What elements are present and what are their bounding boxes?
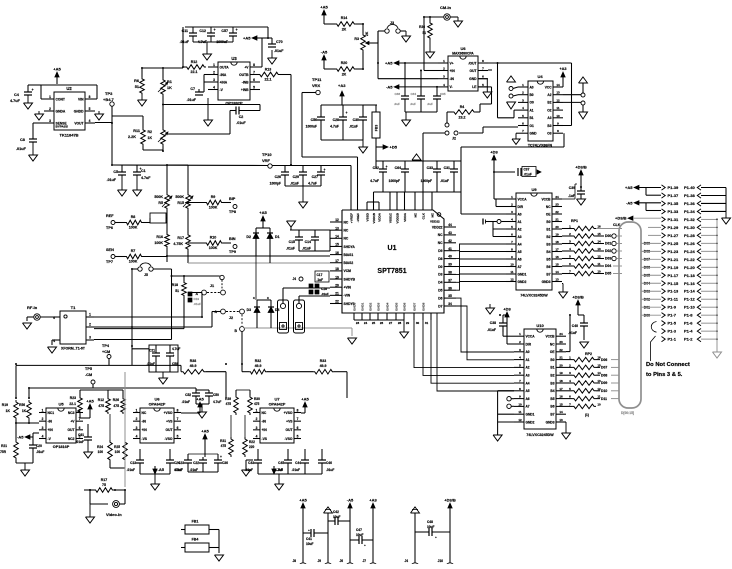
svg-text:P1-22: P1-22 — [684, 257, 695, 262]
svg-text:C64: C64 — [395, 166, 401, 170]
svg-text:+IN: +IN — [450, 69, 456, 73]
svg-text:.01uF: .01uF — [487, 328, 496, 332]
svg-text:44: 44 — [448, 223, 452, 227]
svg-text:1K: 1K — [148, 136, 153, 140]
svg-text:SHDYB: SHDYB — [344, 277, 356, 281]
svg-text:3: 3 — [42, 426, 44, 430]
svg-text:+A5: +A5 — [301, 397, 309, 402]
svg-text:MAX9690CPA: MAX9690CPA — [452, 52, 474, 56]
svg-text:+D3/B: +D3/B — [615, 216, 627, 221]
svg-text:BIN: BIN — [229, 237, 236, 241]
svg-text:-A5: -A5 — [17, 435, 24, 440]
svg-text:D02: D02 — [605, 249, 611, 253]
svg-text:A6: A6 — [526, 397, 530, 401]
svg-text:475: 475 — [254, 402, 260, 406]
svg-text:Do Not Connect: Do Not Connect — [646, 362, 690, 368]
svg-text:1K: 1K — [167, 86, 172, 90]
svg-text:B1: B1 — [546, 227, 550, 231]
svg-text:+: + — [140, 167, 142, 171]
svg-text:GND2: GND2 — [518, 280, 527, 284]
svg-text:D2: D2 — [246, 235, 251, 239]
svg-text:1: 1 — [213, 63, 215, 67]
svg-text:19: 19 — [559, 371, 563, 375]
svg-text:C23: C23 — [178, 461, 184, 465]
svg-text:.01uF: .01uF — [180, 40, 190, 44]
svg-text:4.7uF: 4.7uF — [275, 468, 283, 472]
svg-text:25: 25 — [372, 321, 376, 325]
svg-text:C34: C34 — [410, 92, 416, 96]
svg-text:75: 75 — [102, 483, 106, 487]
svg-text:16: 16 — [335, 251, 339, 255]
svg-text:19: 19 — [555, 233, 559, 237]
svg-text:U7: U7 — [274, 397, 280, 402]
svg-text:+: + — [324, 168, 326, 172]
svg-text:4.7uF: 4.7uF — [10, 99, 21, 103]
svg-text:J2: J2 — [229, 316, 233, 320]
svg-text:+D3/B: +D3/B — [572, 295, 584, 300]
svg-text:+IN: +IN — [142, 428, 148, 432]
svg-text:C29: C29 — [293, 175, 299, 179]
svg-text:P1-18: P1-18 — [684, 273, 695, 278]
svg-text:6: 6 — [297, 426, 299, 430]
svg-text:C27: C27 — [312, 175, 318, 179]
svg-text:BIAS1: BIAS1 — [344, 253, 354, 257]
svg-text:1000pF: 1000pF — [421, 179, 432, 183]
svg-text:+A5: +A5 — [86, 399, 94, 404]
svg-text:OE: OE — [546, 212, 551, 216]
svg-text:GND3: GND3 — [542, 280, 551, 284]
svg-text:J2: J2 — [452, 137, 456, 141]
svg-text:P1-25: P1-25 — [668, 241, 679, 246]
svg-text:GND3: GND3 — [546, 420, 555, 424]
svg-text:.01uF: .01uF — [568, 331, 577, 335]
svg-text:GND4: GND4 — [386, 302, 390, 311]
svg-text:P1-26: P1-26 — [684, 241, 695, 246]
svg-text:B4: B4 — [546, 250, 550, 254]
svg-text:B4: B4 — [550, 389, 554, 393]
svg-text:C18: C18 — [321, 287, 327, 291]
svg-text:15: 15 — [335, 243, 339, 247]
svg-text:A0: A0 — [526, 350, 530, 354]
svg-text:P1-7: P1-7 — [668, 313, 677, 318]
svg-text:7: 7 — [177, 417, 179, 421]
svg-text:.01uF: .01uF — [321, 292, 329, 296]
svg-text:B2: B2 — [547, 101, 551, 105]
svg-text:P1-24: P1-24 — [684, 249, 695, 254]
svg-text:21: 21 — [559, 356, 563, 360]
svg-text:30: 30 — [416, 321, 420, 325]
svg-text:19: 19 — [335, 275, 339, 279]
svg-text:8: 8 — [177, 409, 179, 413]
svg-text:O3: O3 — [547, 132, 551, 136]
svg-text:10: 10 — [518, 402, 522, 406]
svg-text:100: 100 — [98, 450, 104, 454]
svg-text:R31: R31 — [220, 439, 226, 443]
svg-text:T1: T1 — [71, 305, 76, 310]
svg-text:220: 220 — [249, 445, 255, 449]
svg-text:GND5: GND5 — [395, 302, 399, 311]
svg-text:-VS: -VS — [142, 437, 148, 441]
svg-text:+: + — [308, 528, 310, 532]
svg-text:VCCB: VCCB — [541, 197, 551, 201]
svg-text:+A5: +A5 — [201, 429, 209, 434]
svg-text:P1-9: P1-9 — [668, 305, 677, 310]
svg-text:.01uF: .01uF — [286, 247, 295, 251]
svg-text:475: 475 — [221, 444, 227, 448]
svg-text:C48: C48 — [427, 520, 433, 524]
svg-text:14: 14 — [555, 270, 559, 274]
svg-text:.01uF: .01uF — [326, 468, 334, 472]
svg-text:P1-32: P1-32 — [684, 217, 695, 222]
svg-text:C28: C28 — [333, 118, 339, 122]
svg-text:B0: B0 — [550, 358, 554, 362]
svg-text:+: + — [386, 165, 388, 169]
svg-text:-VSO: -VSO — [284, 437, 292, 441]
svg-text:P1-13: P1-13 — [668, 289, 679, 294]
svg-text:GND2: GND2 — [526, 420, 535, 424]
svg-text:D3: D3 — [247, 308, 251, 312]
svg-text:GND1: GND1 — [361, 302, 365, 311]
svg-text:+A5: +A5 — [320, 5, 328, 10]
svg-text:D7: D7 — [438, 304, 442, 308]
svg-text:NC3: NC3 — [68, 411, 75, 415]
svg-text:J4: J4 — [292, 277, 296, 281]
svg-text:VIN: VIN — [78, 97, 84, 101]
svg-text:TP7: TP7 — [106, 260, 113, 264]
svg-text:C44: C44 — [295, 461, 301, 465]
svg-text:C33: C33 — [427, 166, 433, 170]
svg-text:D00: D00 — [605, 234, 611, 238]
svg-text:+A3: +A3 — [369, 498, 377, 503]
svg-text:GND: GND — [530, 132, 538, 136]
svg-text:VOUT: VOUT — [74, 121, 83, 125]
svg-text:39: 39 — [448, 263, 452, 267]
svg-text:D1: D1 — [275, 235, 280, 239]
svg-text:16: 16 — [555, 255, 559, 259]
svg-text:42: 42 — [448, 239, 452, 243]
svg-text:20: 20 — [555, 225, 559, 229]
svg-text:VRX: VRX — [312, 83, 321, 88]
svg-text:U6: U6 — [460, 46, 466, 51]
svg-text:OE: OE — [550, 350, 555, 354]
svg-text:D3: D3 — [438, 273, 442, 277]
svg-text:12: 12 — [556, 98, 560, 102]
svg-text:C7: C7 — [190, 87, 195, 91]
svg-text:1: 1 — [42, 409, 44, 413]
svg-text:C38: C38 — [394, 92, 400, 96]
svg-text:.01uF: .01uF — [292, 468, 300, 472]
svg-text:C52: C52 — [185, 393, 191, 397]
svg-text:GND1: GND1 — [526, 413, 535, 417]
svg-text:.01uF: .01uF — [290, 182, 299, 186]
svg-text:A5: A5 — [518, 250, 522, 254]
svg-text:NC: NC — [262, 411, 267, 415]
svg-text:FB4: FB4 — [192, 538, 199, 542]
svg-text:NC: NC — [546, 205, 551, 209]
svg-text:P1-3: P1-3 — [668, 329, 677, 334]
svg-text:P1-28: P1-28 — [684, 233, 695, 238]
svg-text:VDDA: VDDA — [403, 212, 407, 222]
svg-text:VCCB: VCCB — [545, 335, 555, 339]
svg-text:2: 2 — [256, 417, 258, 421]
svg-text:7: 7 — [297, 417, 299, 421]
svg-text:-A5: -A5 — [626, 200, 633, 205]
svg-text:+INB: +INB — [241, 88, 249, 92]
svg-text:16: 16 — [559, 395, 563, 399]
svg-text:TP10: TP10 — [262, 152, 272, 157]
svg-text:.01uF: .01uF — [187, 98, 197, 102]
svg-text:-VSO: -VSO — [164, 437, 172, 441]
svg-text:D8: D8 — [438, 257, 442, 261]
svg-text:P1-14: P1-14 — [684, 289, 695, 294]
svg-text:18: 18 — [559, 379, 563, 383]
svg-text:P1-35: P1-35 — [668, 201, 679, 206]
svg-text:3: 3 — [136, 426, 138, 430]
svg-text:P1-11: P1-11 — [668, 297, 679, 302]
svg-text:R56: R56 — [19, 403, 25, 407]
svg-text:B6: B6 — [546, 265, 550, 269]
svg-text:.01uF: .01uF — [194, 302, 202, 306]
svg-text:21: 21 — [555, 218, 559, 222]
svg-text:4.7uF: 4.7uF — [308, 182, 317, 186]
svg-text:NC: NC — [344, 220, 349, 224]
svg-text:.01uF: .01uF — [107, 178, 117, 182]
svg-text:10: 10 — [556, 114, 560, 118]
svg-text:C35: C35 — [440, 92, 446, 96]
svg-text:8: 8 — [253, 63, 255, 67]
svg-text:D10: D10 — [601, 389, 607, 393]
svg-text:R16: R16 — [156, 235, 163, 239]
svg-text:J1: J1 — [210, 284, 214, 288]
svg-text:3: 3 — [49, 119, 51, 123]
svg-text:C38: C38 — [490, 321, 496, 325]
svg-text:+IN: +IN — [48, 428, 54, 432]
svg-text:13: 13 — [335, 226, 339, 230]
svg-text:GNDA: GNDA — [56, 109, 66, 113]
svg-text:.01uF: .01uF — [302, 247, 311, 251]
svg-text:C40: C40 — [572, 324, 578, 328]
svg-text:17: 17 — [335, 259, 339, 263]
svg-text:C21: C21 — [149, 349, 155, 353]
svg-text:-IN: -IN — [262, 419, 267, 423]
svg-text:P1-16: P1-16 — [684, 281, 695, 286]
svg-text:500K: 500K — [175, 195, 184, 199]
svg-text:23: 23 — [559, 340, 563, 344]
svg-text:R18: R18 — [172, 283, 178, 287]
svg-text:U9: U9 — [531, 187, 537, 192]
svg-text:26: 26 — [380, 321, 384, 325]
svg-text:FB1: FB1 — [192, 520, 199, 524]
svg-text:1K: 1K — [22, 409, 27, 413]
svg-text:1: 1 — [136, 409, 138, 413]
svg-text:C8: C8 — [20, 138, 25, 142]
svg-text:R21: R21 — [1, 444, 7, 448]
svg-text:18: 18 — [555, 240, 559, 244]
svg-text:+VREF: +VREF — [350, 213, 354, 223]
svg-text:+A5: +A5 — [243, 36, 251, 41]
svg-text:7: 7 — [253, 71, 255, 75]
svg-text:1000uF: 1000uF — [306, 125, 317, 129]
svg-text:12: 12 — [518, 418, 522, 422]
svg-text:B3: B3 — [550, 381, 554, 385]
svg-text:A4: A4 — [518, 242, 522, 246]
svg-text:6: 6 — [177, 426, 179, 430]
svg-text:TP8: TP8 — [229, 210, 236, 214]
svg-text:R2: R2 — [148, 130, 153, 134]
svg-text:74LVXC3245DW: 74LVXC3245DW — [526, 433, 554, 437]
svg-text:R8: R8 — [131, 215, 136, 219]
svg-text:B2: B2 — [550, 374, 554, 378]
svg-text:15: 15 — [555, 263, 559, 267]
svg-text:22.1: 22.1 — [69, 402, 76, 406]
svg-text:P1-23: P1-23 — [668, 249, 679, 254]
svg-text:C36: C36 — [222, 461, 228, 465]
svg-text:GND1: GND1 — [518, 272, 527, 276]
svg-text:R26: R26 — [113, 398, 119, 402]
svg-text:GND6: GND6 — [403, 302, 407, 311]
svg-text:.01uF: .01uF — [76, 440, 84, 444]
svg-text:+B4.7: +B4.7 — [103, 97, 115, 102]
svg-text:500K: 500K — [154, 195, 163, 199]
svg-text:22.1: 22.1 — [265, 78, 272, 82]
svg-text:GNDD: GNDD — [74, 109, 84, 113]
svg-text:2: 2 — [89, 323, 91, 327]
svg-text:23.2: 23.2 — [459, 116, 466, 120]
svg-text:P1-15: P1-15 — [668, 281, 679, 286]
svg-text:-INB: -INB — [242, 80, 249, 84]
svg-text:J8: J8 — [292, 559, 296, 563]
svg-text:NC1: NC1 — [48, 411, 55, 415]
svg-text:.01uF: .01uF — [190, 468, 198, 472]
svg-text:C31: C31 — [444, 166, 450, 170]
svg-text:+: + — [346, 111, 348, 115]
svg-text:P1-2: P1-2 — [684, 337, 693, 342]
svg-text:OUT: OUT — [286, 428, 293, 432]
svg-text:R33: R33 — [320, 359, 326, 363]
svg-text:TP3: TP3 — [105, 91, 113, 96]
svg-text:VCCA: VCCA — [526, 335, 536, 339]
svg-text:35: 35 — [448, 294, 452, 298]
svg-text:6: 6 — [253, 78, 255, 82]
svg-text:A3: A3 — [547, 116, 551, 120]
svg-text:13: 13 — [559, 418, 563, 422]
svg-text:1: 1 — [256, 409, 258, 413]
svg-text:RF-In: RF-In — [27, 305, 38, 310]
svg-text:C26: C26 — [275, 175, 281, 179]
svg-text:R13: R13 — [265, 68, 272, 72]
svg-text:+VS: +VS — [286, 419, 293, 423]
svg-text:VDD22: VDD22 — [432, 225, 443, 229]
svg-text:21: 21 — [335, 292, 339, 296]
svg-text:.01uF: .01uF — [236, 121, 246, 125]
svg-text:P1-40: P1-40 — [684, 185, 695, 190]
svg-text:C5: C5 — [113, 170, 118, 174]
svg-text:U10: U10 — [536, 323, 544, 328]
svg-text:C41: C41 — [306, 537, 312, 541]
svg-text:2K: 2K — [342, 28, 347, 32]
svg-text:P1-8: P1-8 — [684, 313, 693, 318]
svg-text:2K: 2K — [365, 31, 369, 36]
svg-text:.01uF: .01uF — [175, 468, 183, 472]
svg-text:V+: V+ — [450, 61, 454, 65]
svg-text:-CM: -CM — [85, 373, 92, 377]
svg-text:D06: D06 — [601, 358, 607, 362]
svg-text:C43: C43 — [248, 461, 254, 465]
svg-text:O0: O0 — [530, 101, 534, 105]
svg-text:C56: C56 — [311, 118, 317, 122]
svg-text:VRF: VRF — [262, 158, 271, 163]
svg-text:5: 5 — [253, 86, 255, 90]
svg-text:D9: D9 — [438, 249, 442, 253]
svg-text:100K: 100K — [154, 241, 163, 245]
svg-text:U2: U2 — [66, 86, 72, 91]
svg-text:C22: C22 — [193, 461, 199, 465]
svg-text:A1: A1 — [526, 358, 530, 362]
svg-text:20: 20 — [335, 283, 339, 287]
svg-text:O1: O1 — [530, 124, 534, 128]
svg-text:R23: R23 — [70, 396, 76, 400]
svg-text:P1-20: P1-20 — [684, 265, 695, 270]
svg-text:+CM: +CM — [102, 350, 110, 354]
svg-text:D[00:15]: D[00:15] — [621, 411, 634, 415]
svg-text:D03: D03 — [605, 257, 611, 261]
svg-text:22: 22 — [559, 348, 563, 352]
svg-text:P1-30: P1-30 — [684, 225, 695, 230]
svg-text:R10: R10 — [210, 236, 217, 240]
svg-text:+A5: +A5 — [196, 397, 204, 402]
svg-text:R19: R19 — [2, 403, 8, 407]
svg-text:A1: A1 — [518, 220, 522, 224]
svg-text:C19: C19 — [194, 297, 200, 301]
svg-text:TP11: TP11 — [312, 77, 322, 82]
svg-text:P1-12: P1-12 — [684, 297, 695, 302]
svg-text:+A5: +A5 — [299, 498, 307, 503]
svg-text:R14: R14 — [341, 16, 348, 20]
svg-text:C37: C37 — [524, 168, 530, 172]
svg-text:22: 22 — [335, 300, 339, 304]
svg-text:P1-33: P1-33 — [668, 209, 679, 214]
svg-text:C13: C13 — [130, 461, 136, 465]
svg-text:14: 14 — [556, 83, 560, 87]
svg-text:TP4: TP4 — [102, 344, 110, 348]
svg-text:CLK: CLK — [422, 212, 426, 219]
svg-text:J5: J5 — [144, 273, 148, 277]
svg-text:18: 18 — [335, 267, 339, 271]
svg-text:R3: R3 — [354, 37, 359, 41]
svg-text:4.7uF: 4.7uF — [141, 176, 151, 180]
svg-text:P1-34: P1-34 — [684, 209, 695, 214]
svg-text:V-: V- — [450, 85, 453, 89]
svg-text:49.9: 49.9 — [255, 364, 262, 368]
svg-text:+VIN: +VIN — [344, 286, 352, 290]
svg-text:-IN: -IN — [48, 419, 53, 423]
svg-text:NC: NC — [550, 342, 555, 346]
svg-text:GND2: GND2 — [369, 302, 373, 311]
svg-text:1000pF: 1000pF — [270, 182, 281, 186]
svg-text:15: 15 — [597, 232, 601, 236]
svg-text:P1-10: P1-10 — [684, 305, 695, 310]
svg-text:OUT: OUT — [166, 428, 173, 432]
svg-text:P1-17: P1-17 — [668, 273, 679, 278]
svg-text:-INA: -INA — [220, 73, 227, 77]
svg-text:TP9: TP9 — [229, 250, 236, 254]
svg-text:C42: C42 — [333, 510, 339, 514]
svg-text:SHDYA: SHDYA — [344, 245, 356, 249]
svg-text:RP2: RP2 — [585, 352, 592, 356]
svg-text:475: 475 — [113, 404, 119, 408]
svg-text:.01uF: .01uF — [349, 125, 358, 129]
svg-text:.1uF: .1uF — [317, 278, 324, 282]
